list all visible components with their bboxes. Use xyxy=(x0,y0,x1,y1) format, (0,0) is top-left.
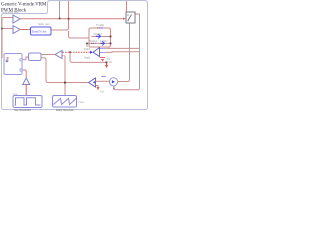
gain T5 (up-facing) xyxy=(23,78,30,85)
comparator T4 (left-facing) xyxy=(89,78,96,87)
svg-text:Norm1: Norm1 xyxy=(90,40,98,43)
wire: T3 lower port to right vertical xyxy=(106,51,140,54)
blue inner arrow of T4 xyxy=(93,81,96,84)
svg-text:Sum_out: Sum_out xyxy=(38,22,49,26)
arrowhead into T3 apex xyxy=(90,51,93,54)
wire: T5 to pulse generator xyxy=(25,85,27,96)
svg-text:Sym2: Sym2 xyxy=(84,56,91,59)
ground terminator under T4 xyxy=(96,87,99,90)
sum junction S1 xyxy=(109,78,117,86)
blue dashes at T3 lower input xyxy=(100,52,107,54)
manual switch SW1 xyxy=(126,12,135,23)
wire: x68.5 down into cluster box xyxy=(69,31,90,38)
blue arrow glyph on row1 xyxy=(96,34,101,39)
title annotation "Generic V-mode VRM PWM Block" xyxy=(1,2,47,13)
wire: T4 lower port stub xyxy=(96,86,99,88)
port icon inside U1 xyxy=(6,58,8,62)
node: junction at x59.5 xyxy=(59,18,61,20)
dead-time block B2 xyxy=(31,27,52,35)
wire row1 inside cluster xyxy=(92,36,111,38)
node: junction at wire end xyxy=(106,62,108,64)
port mark below S1 xyxy=(113,88,115,90)
svg-text:Vout sense gain: Vout sense gain xyxy=(2,11,19,14)
svg-text:DeadT 0 dot: DeadT 0 dot xyxy=(32,29,47,33)
node: row1 right junction xyxy=(110,36,112,38)
wire: T2L output to B1 xyxy=(41,54,55,56)
wire: T1 output to manual switch xyxy=(20,18,125,20)
svg-text:Val: Val xyxy=(109,61,113,64)
wire: vertical from T2L stub down to sawtooth generator xyxy=(64,56,66,96)
wire: B1 bottom port down and right to T4 xyxy=(41,58,88,83)
subsystem block U1 xyxy=(4,54,22,75)
comparator T3 xyxy=(93,48,100,57)
svg-text:Generic V-mode VRM: Generic V-mode VRM xyxy=(1,2,47,7)
svg-text:Vsw: Vsw xyxy=(100,91,105,94)
svg-text:Saw: Saw xyxy=(13,93,18,96)
wire: switch right side loop down to S1 bottom input xyxy=(114,14,140,90)
wire: left input bus to gain T1 xyxy=(2,18,13,59)
svg-text:Vsaw: Vsaw xyxy=(78,101,84,104)
node: row2 left junction xyxy=(86,43,88,45)
wire: B2 output up to top edge xyxy=(51,1,69,30)
wire: branch to gain T2 xyxy=(2,28,13,30)
blue arrow glyph on row2 xyxy=(101,41,105,45)
svg-text:Ramp Waveform: Ramp Waveform xyxy=(56,109,74,112)
subsystem border frame xyxy=(2,1,148,110)
wire: T3 upper port to right vertical xyxy=(106,47,140,49)
svg-text:Comp1: Comp1 xyxy=(100,40,108,43)
gain T1 xyxy=(13,15,20,23)
port bubble 2 xyxy=(20,69,22,71)
wire: T4 to sum S1 xyxy=(96,80,110,82)
svg-text:Vpwm1: Vpwm1 xyxy=(94,33,103,36)
wire: switch top input from top edge xyxy=(126,1,128,12)
svg-text:Vsl: Vsl xyxy=(107,58,111,61)
cluster group rectangle xyxy=(89,28,111,47)
wire row2 left stub down xyxy=(86,43,88,47)
wire row2 inside cluster xyxy=(87,42,111,44)
wire: red dashed stub T2L lower port xyxy=(62,55,65,57)
gain T2L (left-facing) xyxy=(55,51,62,59)
svg-text:Saw Waveform1: Saw Waveform1 xyxy=(14,109,32,112)
blue dash glyph on row2 xyxy=(91,42,96,44)
sawtooth generator P2 xyxy=(53,96,77,108)
pulse generator P1 xyxy=(13,96,42,108)
svg-text:Vcomp: Vcomp xyxy=(96,24,105,27)
ground terminator under T3 xyxy=(100,58,105,62)
port bubble 1 xyxy=(20,59,22,61)
node: junction on dashed wire xyxy=(69,51,71,53)
node: row2 right junction xyxy=(110,43,112,45)
rounded block B1 xyxy=(29,53,42,61)
arrowhead into switch xyxy=(123,18,126,21)
wire: T3 output dashed red to T2L xyxy=(63,51,91,53)
wire: U1 port2 down to gain T5 xyxy=(23,70,27,78)
wire: S1 output up to switch bottom xyxy=(118,23,130,82)
node: junction at x68.5 xyxy=(68,18,70,20)
svg-text:Sym1: Sym1 xyxy=(84,48,91,51)
wire: U1 port1 to block B1 xyxy=(23,57,29,60)
gain T2 xyxy=(13,26,20,34)
wire: drop from top edge to T1 wire xyxy=(59,1,61,19)
wire: branch down from dashed wire to terminator xyxy=(70,52,107,62)
blue dash mark above S1 xyxy=(102,76,107,78)
blue dashes at T3 upper input xyxy=(100,48,107,50)
node: junction at x65 crossing xyxy=(64,82,66,84)
node: junction on left bus xyxy=(1,28,3,30)
wire: T2 output to dead-time block xyxy=(20,29,30,31)
blue dashes on cluster top edge xyxy=(97,27,103,29)
terminator arrow down xyxy=(105,63,108,68)
